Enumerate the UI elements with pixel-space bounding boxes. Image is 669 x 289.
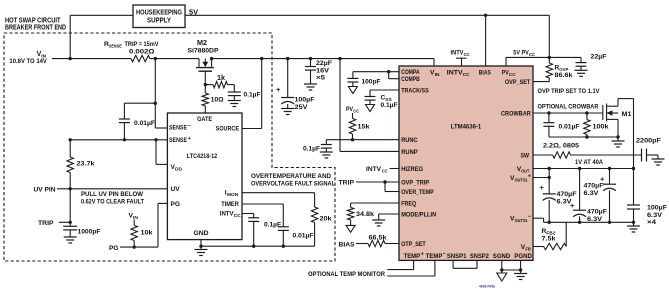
5V PVCC net label (513, 50, 535, 59)
svg-text:UV PIN: UV PIN (34, 187, 56, 194)
svg-text:+: + (570, 201, 575, 210)
svg-text:SENSE: SENSE (109, 44, 123, 50)
wire TRIP to OVER_TEMP (385, 182, 399, 192)
resistor 34.8k FREQ (347, 203, 399, 225)
node SOURCE sense tie (260, 57, 263, 60)
wire rail M2 source to VIN caps (212, 58, 434, 60)
svg-text:SNSP2: SNSP2 (470, 253, 489, 260)
wire SENSE+ rail (70, 139, 167, 141)
node PVCC-ROVP junction (548, 56, 551, 59)
wire RUNC line (326, 139, 399, 141)
ground MODE/PLLIN (372, 214, 399, 226)
note 1V at 40A (575, 159, 603, 166)
transistor M2 Si7880DP (188, 40, 220, 71)
resistor 2.2ohm snubber (533, 143, 642, 159)
svg-text:20k: 20k (320, 216, 332, 223)
BIAS net label left (339, 241, 356, 248)
wire M2 source to rail (210, 57, 213, 60)
svg-text:CC: CC (382, 168, 388, 174)
node 15k-RUNC junction (351, 138, 354, 141)
svg-text:25V: 25V (295, 104, 309, 111)
node UV junction (69, 187, 72, 190)
wire TRACK/SS to CSS (370, 90, 399, 97)
capacitor 22uF PVCC (576, 54, 607, 71)
op-amp U1 LTM4636-1 uModule regulator (399, 66, 533, 260)
svg-text:34.8k: 34.8k (356, 211, 374, 218)
node gnd rail c1 (548, 221, 551, 224)
capacitor 0.01uF sense filter (119, 103, 155, 140)
svg-text:CC: CC (509, 72, 516, 78)
svg-text:OPTIONAL CROWBAR: OPTIONAL CROWBAR (538, 104, 599, 111)
svg-text:OVERTEMPERATURE AND: OVERTEMPERATURE AND (251, 173, 331, 180)
wire TEMP- to monitor (387, 260, 435, 276)
node gnd rail c3 (608, 221, 611, 224)
wire PVCC feed (506, 57, 581, 66)
capacitor CSS 0.1uF (365, 95, 398, 109)
svg-text:100k: 100k (593, 124, 609, 131)
ground CSS cap (366, 105, 375, 112)
svg-text:OVER_TEMP: OVER_TEMP (401, 189, 434, 196)
svg-text:470µF: 470µF (587, 209, 607, 216)
svg-text:SW: SW (521, 153, 530, 160)
INTVCC net label at HIZREG (366, 166, 399, 174)
svg-text:1000pF: 1000pF (78, 229, 101, 236)
ground 22uF input cap (304, 84, 317, 90)
capacitor 100pF COMP (347, 72, 380, 87)
svg-text:SENSE: SENSE (169, 125, 187, 132)
svg-text:−: − (528, 214, 531, 220)
resistor RSENSE 0.002ohm (104, 41, 159, 62)
TRIP net label left (339, 180, 355, 187)
svg-text:+: + (276, 85, 281, 94)
ground 100pF comp cap (348, 87, 357, 94)
node gate network junction (204, 83, 207, 86)
svg-text:LTM4636-1: LTM4636-1 (451, 124, 482, 131)
svg-text:−: − (443, 251, 446, 257)
capacitor 0.01uF crowbar (543, 113, 579, 137)
svg-text:MODE/PLLIN: MODE/PLLIN (401, 212, 436, 219)
svg-text:+: + (188, 136, 191, 142)
wire 5V rail down to BIAS pin (485, 15, 487, 66)
ground FREQ resistor (346, 225, 355, 232)
svg-text:100µF: 100µF (295, 97, 315, 104)
svg-text:−: − (188, 123, 191, 129)
node crowbar cap junction (547, 111, 550, 114)
svg-text:SNSP1: SNSP1 (447, 253, 467, 260)
svg-text:100µF: 100µF (647, 205, 667, 212)
svg-text:M2: M2 (197, 40, 207, 47)
wire TEMP+ to monitor (387, 260, 413, 269)
node crowbar tie res (585, 135, 588, 138)
wire VOUTS1+ sense (533, 177, 549, 179)
note OVP trip set (538, 88, 601, 95)
resistor 10k PG pullup (131, 220, 153, 248)
svg-text:0.1µF: 0.1µF (303, 146, 320, 153)
node PG junction (133, 245, 136, 248)
svg-text:PG: PG (109, 245, 119, 252)
svg-text:GND: GND (194, 230, 209, 237)
svg-text:+: + (421, 251, 424, 257)
wire M1 drain loop to VOUT (618, 99, 634, 169)
ground output rail (627, 222, 640, 232)
wire VIN drop to RUN pins (339, 59, 341, 152)
svg-text:10Ω: 10Ω (211, 97, 225, 104)
svg-text:TRIP: TRIP (38, 220, 54, 227)
svg-text:OVP_TRIP: OVP_TRIP (401, 180, 430, 187)
svg-text:BREAKER FRONT END: BREAKER FRONT END (5, 23, 66, 32)
node VOUTS1+ junction (548, 176, 551, 179)
capacitor 0.1uF INTVCC (242, 214, 281, 247)
wire GND pin stub (200, 240, 202, 247)
svg-text:LTC4218-12: LTC4218-12 (187, 153, 218, 160)
wire crowbar gnd tie (549, 136, 618, 138)
ground PGND earth (514, 270, 527, 280)
svg-text:OPTIONAL TEMP MONITOR: OPTIONAL TEMP MONITOR (308, 271, 385, 278)
VIN net label at PG pullup (129, 213, 139, 222)
svg-text:470µF: 470µF (557, 191, 577, 198)
wire COMPB jog (389, 72, 399, 79)
node VOUT cap2 (578, 167, 581, 170)
svg-text:0.01µF: 0.01µF (559, 124, 580, 131)
svg-text:7.5k: 7.5k (542, 236, 556, 243)
note optional crowbar (538, 104, 599, 111)
svg-text:TEMP: TEMP (404, 253, 421, 260)
svg-text:2.2Ω, 0805: 2.2Ω, 0805 (543, 143, 579, 150)
svg-text:SUPPLY: SUPPLY (147, 18, 171, 25)
svg-text:15k: 15k (358, 124, 370, 131)
PVCC net label for 15k (346, 106, 360, 114)
svg-text:M1: M1 (622, 111, 632, 118)
svg-text:0.1µF: 0.1µF (244, 92, 261, 99)
svg-text:TRACK/SS: TRACK/SS (401, 88, 429, 95)
note pull UV pin below (81, 191, 144, 205)
capacitor 100uF 25V input (276, 59, 315, 111)
svg-text:OVP_SET: OVP_SET (505, 79, 530, 86)
svg-text:TEMP: TEMP (426, 253, 443, 260)
wire VOUTS1- sense (533, 218, 544, 222)
node gnd rail c2 (578, 221, 581, 224)
svg-text:10k: 10k (141, 230, 153, 237)
svg-text:BIAS: BIAS (479, 70, 491, 77)
svg-text:×4: ×4 (647, 219, 656, 226)
node RSENSE right sense tap (154, 57, 157, 60)
svg-text:0.01µF: 0.01µF (134, 120, 155, 127)
wire VDD tie (156, 140, 167, 165)
ground SGND triangle (497, 270, 507, 281)
wire VIN rail to housekeeping input (70, 15, 133, 58)
svg-text:COMPB: COMPB (401, 76, 420, 83)
svg-text:6.3V: 6.3V (647, 212, 663, 219)
svg-text:HIZREG: HIZREG (401, 166, 423, 173)
svg-text:PG: PG (171, 201, 181, 208)
svg-text:0.01µF: 0.01µF (293, 233, 314, 240)
svg-text:+: + (540, 183, 545, 192)
svg-text:DD: DD (175, 167, 182, 173)
resistor RFB2 7.5k (533, 222, 566, 249)
svg-text:RUNP: RUNP (401, 149, 418, 156)
svg-text:INTV: INTV (220, 210, 234, 217)
node gnd rail c4 (632, 221, 635, 224)
svg-text:CC: CC (463, 72, 470, 78)
svg-text:1V AT 40A: 1V AT 40A (575, 159, 603, 166)
title: hot swap circuit breaker front end (5, 16, 66, 32)
svg-text:SENSE: SENSE (169, 137, 187, 144)
node 0.01uF TIMER gnd junction (282, 245, 285, 248)
svg-text:86.6k: 86.6k (555, 72, 573, 79)
resistor ROVP 86.6k (546, 63, 573, 82)
svg-text:16V: 16V (316, 67, 330, 74)
svg-text:22µF: 22µF (591, 54, 607, 61)
wire M1 source to ground (612, 119, 625, 147)
svg-text:+: + (528, 174, 531, 180)
svg-text:OVP TRIP SET TO 1.1V: OVP TRIP SET TO 1.1V (538, 88, 601, 95)
ground 100uF input cap (281, 109, 294, 115)
wire TRIP to OVP_TRIP (356, 181, 399, 183)
capacitor 470uF 6.3V no2 (570, 169, 607, 223)
svg-text:OTP_SET: OTP_SET (401, 241, 426, 248)
svg-text:4636 F05a: 4636 F05a (479, 285, 496, 289)
housekeeping supply block (133, 5, 185, 28)
svg-text:PGND: PGND (514, 253, 532, 260)
ground 1000pF cap (64, 237, 77, 243)
wire 5V down to ROVP (548, 15, 550, 63)
svg-text:IN: IN (435, 72, 440, 78)
svg-text:SGND: SGND (493, 253, 511, 260)
svg-text:2200pF: 2200pF (636, 138, 661, 145)
capacitor 0.1uF RUNC (303, 140, 332, 153)
svg-text:0.62V TO CLEAR FAULT: 0.62V TO CLEAR FAULT (81, 198, 144, 205)
wire SGND PGND tie (502, 260, 521, 270)
node VIN-divider junction (69, 57, 72, 60)
wire UV down to TRIP (69, 189, 71, 227)
svg-text:UV: UV (171, 186, 181, 193)
wire LTC GND rail (201, 245, 315, 247)
svg-text:OUTS1: OUTS1 (515, 218, 528, 224)
PG net label and wire (109, 203, 167, 251)
svg-text:FREQ: FREQ (401, 201, 416, 208)
node SENSE+ left junction (69, 138, 72, 141)
wire VIN input rail (52, 58, 131, 60)
svg-text:BIAS: BIAS (339, 241, 356, 248)
ground 22uF PVCC cap (575, 70, 588, 76)
ground snubber (652, 155, 665, 165)
node COMPA-COMPB junction (387, 70, 390, 73)
svg-text:PULL UV PIN BELOW: PULL UV PIN BELOW (81, 191, 144, 198)
svg-text:Si7880DP: Si7880DP (188, 48, 220, 55)
capacitor 0.01uF TIMER (242, 204, 314, 246)
capacitor 470uF 6.3V no1 (540, 169, 577, 223)
wire RUNP line (340, 150, 399, 152)
op-amp U2 LTC4218-12 hot swap controller (167, 113, 242, 240)
TRIP net label and wire (38, 220, 70, 227)
wire ROVP to OVP_SET (533, 81, 549, 83)
node SGND (500, 268, 503, 271)
capacitor 0.1uF gate (228, 85, 261, 101)
svg-text:5V PV: 5V PV (513, 50, 529, 57)
resistor 15k RUNC pullup (349, 113, 370, 140)
node 5V-BIAS junction (484, 14, 487, 17)
capacitor 100uF 6.3V x4 (627, 169, 667, 227)
svg-text:GATE: GATE (197, 116, 213, 123)
svg-text:66.5k: 66.5k (369, 235, 387, 242)
node 100uF input cap junction (286, 57, 289, 60)
svg-text:OVERVOLTAGE FAULT SIGNAL: OVERVOLTAGE FAULT SIGNAL (251, 180, 335, 187)
svg-text:HOUSEKEEPING: HOUSEKEEPING (136, 10, 182, 17)
wire M2 gate down (204, 71, 206, 84)
svg-text:MON: MON (227, 192, 239, 198)
ground 0.1uF RUNC cap (320, 152, 333, 158)
wire VOUT rail (533, 168, 634, 170)
svg-text:TRIP: TRIP (339, 180, 355, 187)
svg-text:CC: CC (353, 108, 359, 114)
ground LTC4218 GND (195, 246, 208, 255)
node VOUT cap3 (608, 167, 611, 170)
wire output ground rail (544, 221, 634, 223)
wire SNSP1-SNSP2 kelvin (453, 260, 477, 268)
svg-text:1k: 1k (217, 75, 225, 82)
svg-text:22µF: 22µF (316, 60, 332, 67)
capacitor 470uF 6.3V no3 (584, 169, 617, 223)
svg-text:FB: FB (525, 246, 531, 252)
wire SENSE- from RSENSE (155, 59, 167, 128)
resistor 1k gate (205, 75, 234, 88)
node 22uF input cap junction (309, 57, 312, 60)
svg-text:0.1µF: 0.1µF (264, 222, 281, 229)
wire V_IN pin entry (433, 59, 435, 66)
svg-text:INTV: INTV (451, 50, 465, 57)
wire CROWBAR line (533, 112, 603, 114)
wire RSENSE to M2 drain (150, 58, 199, 60)
svg-text:0.002Ω: 0.002Ω (129, 49, 155, 56)
note optional temp monitor (308, 271, 385, 278)
node PGND (519, 268, 522, 271)
svg-text:CC: CC (464, 52, 470, 58)
svg-text:CROWBAR: CROWBAR (501, 110, 531, 117)
INTVCC net stub top (451, 50, 471, 67)
resistor 10ohm gate (202, 85, 224, 113)
svg-text:0.1µF: 0.1µF (381, 102, 398, 109)
svg-text:CC: CC (234, 213, 241, 219)
svg-text:100pF: 100pF (362, 79, 381, 86)
resistor 100k crowbar (584, 113, 609, 137)
hot swap front end dashed boundary box (4, 33, 335, 261)
svg-text:SOURCE: SOURCE (216, 126, 240, 133)
node TRIP fanout junction (383, 180, 386, 183)
node 0.1uF INTVCC gnd junction (252, 245, 255, 248)
VIN input label (9, 51, 47, 65)
svg-text:COMPA: COMPA (401, 69, 420, 76)
svg-text:RUNC: RUNC (401, 137, 418, 144)
note figure number (479, 285, 496, 289)
svg-text:TIMER: TIMER (221, 201, 239, 208)
svg-text:×5: ×5 (316, 75, 325, 82)
note overtemperature fault signal (251, 173, 335, 188)
svg-text:INTV: INTV (366, 166, 382, 173)
5V housekeeping output rail (185, 9, 549, 16)
node crowbar res junction (585, 111, 588, 114)
node VIN to RUN drop (338, 57, 341, 60)
svg-text:6.3V: 6.3V (584, 190, 600, 197)
svg-text:TRIP = 15mV: TRIP = 15mV (125, 41, 159, 48)
node GND rail left (199, 245, 202, 248)
capacitor 2200pF snubber (636, 138, 661, 162)
wire COMPA line (353, 71, 399, 73)
node TRIP junction (69, 221, 72, 224)
svg-text:OUTS1: OUTS1 (515, 178, 528, 184)
resistor 23.7k UV divider (67, 140, 95, 189)
resistor 20k IMON (242, 193, 332, 247)
svg-text:470µF: 470µF (584, 183, 604, 190)
wire sense filter jog (124, 102, 155, 104)
resistor 66.5k OTP_SET (356, 235, 399, 247)
ground gate cap (228, 101, 241, 107)
capacitor 1000pF TRIP (63, 226, 100, 237)
svg-text:23.7k: 23.7k (77, 161, 95, 168)
svg-text:5V: 5V (189, 9, 198, 16)
svg-text:INTV: INTV (447, 70, 463, 77)
svg-text:10.8V TO 14V: 10.8V TO 14V (9, 58, 47, 65)
transistor M1 crowbar MOSFET (603, 104, 632, 122)
node VOUT cap1 (548, 167, 551, 170)
node 0.01uF sense jog (154, 102, 157, 105)
node crowbar tie source (616, 135, 619, 138)
UV PIN label and wire (34, 187, 168, 194)
wire LTC4218 SOURCE pin to rail (242, 59, 262, 129)
node VOUT corner (632, 167, 635, 170)
capacitor 22uF 16V x5 input (305, 59, 332, 84)
node SENSE+ filter junction (123, 138, 126, 141)
node SENSE+ VDD junction (154, 138, 157, 141)
